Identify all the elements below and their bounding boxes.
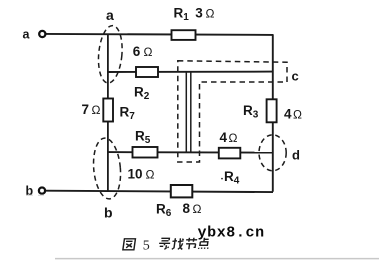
svg-text:Ω: Ω (92, 103, 101, 117)
svg-text:c: c (292, 69, 299, 84)
faint scan line at bottom (55, 258, 379, 260)
wire: middle parallel link left (185, 72, 187, 152)
svg-text:7: 7 (82, 102, 90, 117)
resistor R2 (6 ohm) body (136, 67, 158, 77)
svg-text:Ω: Ω (229, 131, 238, 145)
caption hanzi ZHAO (find) (171, 238, 184, 249)
node a dashed ellipse (96, 25, 124, 84)
wire: top horizontal from terminal a to top-right corner (46, 34, 274, 35)
faint scan specks left of node b (26, 194, 44, 196)
resistor R7 (7 ohm) body (103, 99, 113, 122)
svg-text:Ω: Ω (193, 202, 202, 216)
svg-text:4: 4 (220, 130, 228, 145)
wire: right vertical from top-right corner down to bottom-right corner (272, 34, 274, 192)
caption hanzi XUN (seek) (158, 238, 171, 249)
svg-text:Ω: Ω (206, 7, 215, 21)
stray dot before R4 label (221, 178, 223, 180)
wire: R2 row horizontal from left vertical to node c (108, 71, 273, 73)
svg-text:Ω: Ω (144, 45, 153, 59)
svg-text:a: a (23, 28, 31, 42)
svg-text:5: 5 (143, 239, 150, 254)
resistor R4 (4 ohm) body (219, 148, 241, 159)
node c dashed L-shaped region (178, 61, 287, 162)
caption hanzi JIE (node) (185, 238, 198, 250)
svg-text:3: 3 (195, 6, 203, 21)
svg-text:a: a (106, 7, 114, 23)
caption hanzi TU (figure) (123, 239, 136, 250)
svg-text:10: 10 (128, 167, 143, 182)
resistor R6 (8 ohm) body (171, 185, 193, 197)
terminal b circle (39, 188, 45, 194)
resistor R1 (3 ohm) body (172, 30, 196, 40)
wire: middle parallel link right (190, 72, 192, 152)
node d dashed ellipse (259, 135, 286, 171)
svg-text:8: 8 (183, 201, 191, 216)
svg-text:d: d (292, 148, 300, 163)
svg-text:4: 4 (284, 107, 292, 122)
wire: left vertical from node a down to bottom wire (107, 34, 109, 191)
svg-text:Ω: Ω (293, 108, 302, 122)
resistor R3 (4 ohm) body (267, 99, 277, 122)
wire: bottom horizontal from terminal b to bottom-right corner (45, 191, 273, 192)
node b dashed ellipse (91, 137, 123, 200)
svg-text:Ω: Ω (146, 168, 155, 182)
svg-text:b: b (104, 205, 113, 221)
caption hanzi DIAN (point) (198, 238, 209, 249)
wire: R5/R4 row horizontal from left vertical to node d (108, 151, 273, 154)
terminal a circle (39, 31, 45, 37)
svg-text:6: 6 (133, 44, 141, 59)
resistor R5 (10 ohm) body (133, 147, 158, 158)
